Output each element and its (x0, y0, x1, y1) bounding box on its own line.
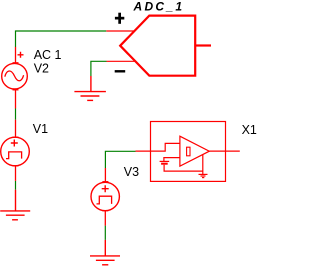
ADC_1 minus input pin (107, 60, 136, 62)
wire V3 top to X1 input (105, 151, 135, 168)
battery to bottom rail (164, 165, 203, 171)
wire V2 bottom to V1 top (15, 109, 17, 120)
svg-text:V3: V3 (124, 165, 139, 179)
pulse source V3 (91, 168, 119, 226)
op-amp triangle inside X1 (180, 136, 209, 166)
svg-text:V2: V2 (34, 61, 49, 75)
triangle bottom stem to ground (202, 154, 204, 174)
AC source V2 (2, 47, 28, 109)
ground under V1 (0, 190, 30, 220)
svg-text:ADC_1: ADC_1 (133, 0, 185, 13)
ground inside X1 (199, 174, 208, 177)
pulse source V1 (1, 120, 30, 181)
ADC_1 plus input pin (106, 30, 134, 32)
wire V3 bottom to ground (104, 226, 106, 240)
wire V1 bottom to ground (15, 181, 17, 190)
X1 output pin (209, 150, 240, 152)
svg-text:AC 1: AC 1 (34, 48, 62, 62)
ADC_1 minus marker (115, 70, 126, 72)
ADC_1 plus marker (115, 13, 124, 24)
ground under ADC minus (74, 76, 106, 100)
battery plate long (160, 160, 170, 162)
gain marker inside triangle (187, 147, 190, 156)
X1 minus input to offset battery (164, 158, 180, 162)
svg-text:V1: V1 (33, 122, 48, 136)
ADC ADC_1 body (120, 16, 195, 76)
macro X1 box (151, 122, 226, 182)
wire V2 top to ADC plus (16, 31, 107, 47)
svg-text:X1: X1 (242, 123, 257, 137)
wire ground to ADC minus (91, 61, 107, 76)
ADC_1 output pin (195, 44, 211, 46)
ground under V3 (90, 240, 120, 265)
X1 input pin (136, 143, 180, 151)
battery plate short thick (161, 163, 168, 165)
